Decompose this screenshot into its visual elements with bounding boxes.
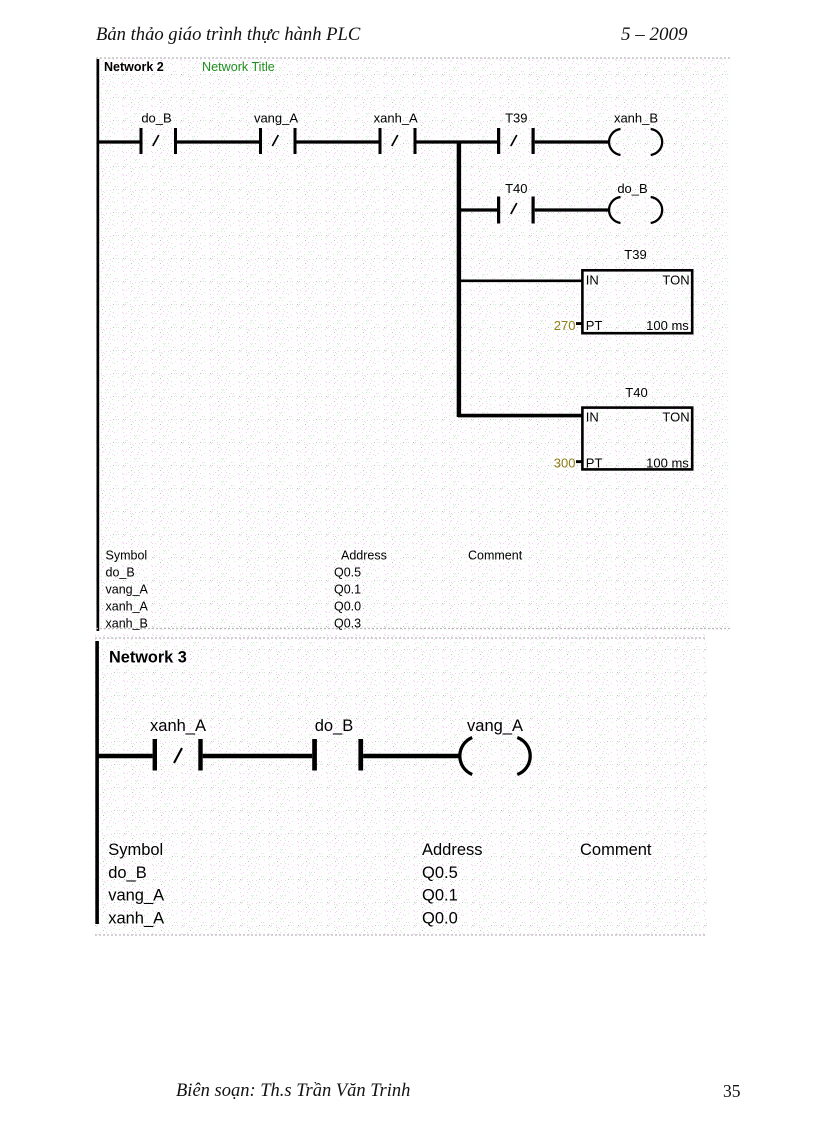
ladder network 3 screenshot [93,632,707,937]
PT preset 300 [554,455,582,470]
svg-text:TON: TON [662,273,689,288]
symbol row do_B [108,864,458,882]
svg-text:T40: T40 [505,181,527,196]
wire rail to contact do_B [98,140,140,143]
timer T40 box TON [582,408,692,471]
wire do_B to coil vang_A [363,754,461,759]
svg-text:T39: T39 [624,247,646,262]
header date [621,24,688,46]
coil vang_A [460,717,530,775]
svg-text:T39: T39 [505,111,527,126]
PT preset 270 [554,318,582,333]
svg-text:Q0.1: Q0.1 [334,583,361,597]
contact T40 (NC) [497,181,535,224]
wire xanh_A to T39 contact [417,140,498,143]
timer T39 box TON [582,270,692,333]
svg-text:do_B: do_B [617,181,647,196]
svg-text:Network 2: Network 2 [104,60,164,74]
wire branch to contact T40 [458,208,497,211]
svg-text:xanh_B: xanh_B [614,111,658,126]
network separator bottom [95,934,707,936]
svg-text:vang_A: vang_A [254,111,298,126]
svg-text:do_B: do_B [141,111,171,126]
symbol row xanh_A [106,600,362,614]
wire T40 to coil do_B [535,208,610,211]
svg-text:Comment: Comment [468,549,523,563]
svg-text:Q0.5: Q0.5 [422,864,458,882]
network separator bottom [96,628,731,630]
contact T39 (NC) [497,111,535,155]
footer author [176,1081,410,1102]
svg-text:do_B: do_B [106,566,135,580]
symbol table header row [106,549,523,563]
svg-text:vang_A: vang_A [106,583,149,597]
junction vertical wire [457,141,461,417]
wire branch to timer T40 IN [458,414,583,418]
svg-text:PT: PT [586,455,603,470]
svg-text:Symbol: Symbol [106,549,148,563]
svg-text:Network 3: Network 3 [109,648,187,666]
svg-text:270: 270 [554,318,576,333]
svg-text:vang_A: vang_A [108,887,164,905]
contact xanh_A (NC) [374,111,418,155]
svg-text:xanh_A: xanh_A [150,717,206,735]
left power rail [95,641,99,924]
contact do_B (NC) [140,111,178,155]
svg-text:IN: IN [586,273,599,288]
svg-text:Comment: Comment [580,841,652,859]
wire do_B to vang_A [177,140,259,143]
svg-text:Q0.5: Q0.5 [334,566,361,580]
svg-text:do_B: do_B [315,717,354,735]
svg-text:Q0.0: Q0.0 [422,909,458,927]
svg-text:vang_A: vang_A [467,717,523,735]
wire xanh_A to do_B [203,754,313,759]
svg-text:100 ms: 100 ms [646,455,689,470]
ladder network 2 screenshot [92,57,731,631]
svg-text:PT: PT [586,318,603,333]
wire branch to timer T39 IN [458,279,583,282]
svg-text:300: 300 [554,455,576,470]
svg-text:xanh_A: xanh_A [374,111,418,126]
coil do_B [609,181,662,223]
symbol row vang_A [108,887,458,905]
svg-text:IN: IN [586,410,599,425]
svg-text:TON: TON [662,410,689,425]
symbol row do_B [106,566,362,580]
svg-text:Symbol: Symbol [108,841,163,859]
symbol row vang_A [106,583,362,597]
svg-text:Address: Address [341,549,387,563]
screenshot background [95,634,707,935]
wire rail to contact xanh_A [97,754,153,759]
wire T39 to coil xanh_B [535,140,610,143]
contact do_B (NO) [312,717,363,771]
svg-text:Q0.1: Q0.1 [422,887,458,905]
svg-text:Q0.0: Q0.0 [334,600,361,614]
svg-text:T40: T40 [625,385,647,400]
symbol table header row [108,841,652,859]
svg-text:Network Title: Network Title [202,60,275,74]
wire vang_A to xanh_A [297,140,379,143]
svg-text:100 ms: 100 ms [646,318,689,333]
left power rail [97,59,100,631]
coil xanh_B [609,111,662,156]
symbol row xanh_B [106,617,362,631]
contact vang_A (NC) [254,111,298,155]
footer page number [723,1081,741,1102]
contact xanh_A (NC) [150,717,206,771]
symbol row xanh_A [108,909,458,927]
screenshot background [96,57,731,631]
svg-text:xanh_A: xanh_A [106,600,149,614]
svg-text:do_B: do_B [108,864,147,882]
network separator top [95,637,707,639]
network separator top [96,57,731,59]
svg-text:xanh_A: xanh_A [108,909,164,927]
svg-text:Address: Address [422,841,483,859]
header title [96,24,360,46]
